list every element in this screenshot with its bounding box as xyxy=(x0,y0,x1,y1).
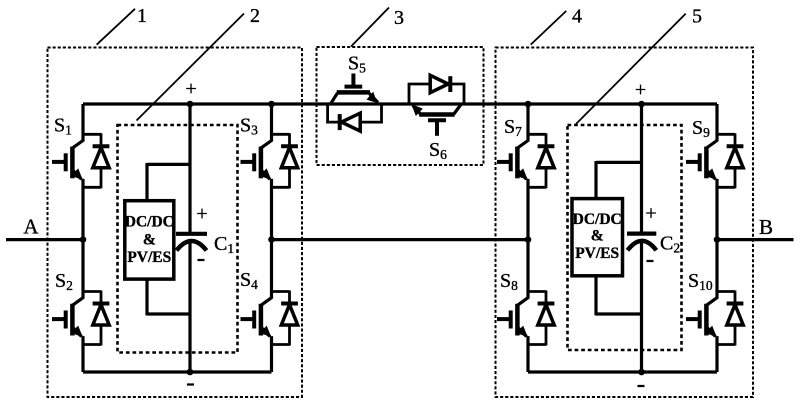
text DC/DC & PV/ES (right) xyxy=(573,211,622,262)
svg-text:1: 1 xyxy=(137,5,147,27)
svg-text:+: + xyxy=(185,78,196,100)
junction node top bus / S7 leg xyxy=(525,101,532,108)
module box 3 (bidirectional switch cell, dashed) xyxy=(317,47,484,165)
transistor S6 (horizontal IGBT, gate down, antiparallel diode above) xyxy=(408,75,466,136)
transistor S5 (horizontal IGBT, gate up, antiparallel diode below) xyxy=(326,74,383,132)
svg-text:5: 5 xyxy=(692,6,702,28)
capacitor C1 (polarized) xyxy=(176,234,207,251)
transistor S2 (IGBT with antiparallel diode) xyxy=(52,291,109,346)
svg-text:-: - xyxy=(637,370,646,399)
module box 1 (left H-bridge cell, dashed) xyxy=(48,48,303,398)
svg-text:PV/ES: PV/ES xyxy=(575,245,619,262)
wire: left block top elbow xyxy=(147,163,190,201)
wire: right leg S9/S10 vertical xyxy=(715,104,718,372)
junction node B / right leg xyxy=(714,236,721,243)
wire: left bridge bottom bus xyxy=(83,370,272,373)
transistor S4 (IGBT with antiparallel diode) xyxy=(241,291,298,346)
svg-text:DC/DC: DC/DC xyxy=(573,211,622,228)
leader line to label 1 xyxy=(97,9,135,45)
transistor S8 (IGBT with antiparallel diode) xyxy=(497,291,554,346)
wire: terminal A lead xyxy=(6,238,83,241)
svg-text:B: B xyxy=(759,215,773,239)
transistor S7 (IGBT with antiparallel diode) xyxy=(497,133,554,188)
svg-text:DC/DC: DC/DC xyxy=(125,213,174,230)
module box 5 (right DC/DC-PV/ES sub-module, dashed) xyxy=(568,125,682,350)
capacitor C2 (polarized) xyxy=(627,234,656,251)
leader line to label 2 xyxy=(137,14,245,121)
junction node bottom bus / C1 leg xyxy=(187,369,194,376)
module box 2 (left DC/DC-PV/ES sub-module, dashed) xyxy=(118,125,238,353)
wire: left bridge right leg S3/S4 vertical xyxy=(270,104,273,372)
svg-text:-: - xyxy=(646,245,655,274)
svg-text:A: A xyxy=(23,214,39,238)
transistor S9 (IGBT with antiparallel diode) xyxy=(686,133,743,188)
wire: mid link between bridges xyxy=(272,238,529,241)
transistor S3 (IGBT with antiparallel diode) xyxy=(241,133,298,188)
junction node top bus / C2 leg xyxy=(638,101,645,108)
wire: right block top elbow xyxy=(596,161,642,199)
svg-text:+: + xyxy=(196,203,207,225)
svg-text:3: 3 xyxy=(394,7,404,29)
DC/DC & PV/ES block (right) xyxy=(572,199,623,276)
wire: right block bottom elbow xyxy=(596,276,642,316)
transistor S1 (IGBT with antiparallel diode) xyxy=(52,133,109,188)
svg-text:-: - xyxy=(186,368,195,397)
svg-text:&: & xyxy=(143,232,156,249)
junction node + left bus / C1 leg xyxy=(187,101,194,108)
svg-text:-: - xyxy=(197,244,206,273)
svg-text:4: 4 xyxy=(572,6,582,28)
DC/DC & PV/ES block (left) xyxy=(125,201,174,279)
junction node mid / S3-S4 leg xyxy=(268,236,275,243)
svg-text:2: 2 xyxy=(250,5,260,27)
transistor S10 (IGBT with antiparallel diode) xyxy=(686,291,743,346)
svg-text:&: & xyxy=(591,228,604,245)
module box 4 (right H-bridge cell, dashed) xyxy=(496,48,754,398)
wire: right bridge bottom bus xyxy=(528,370,717,373)
svg-text:+: + xyxy=(645,203,656,225)
leader line to label 5 xyxy=(576,14,686,124)
leader line to label 3 xyxy=(351,8,389,47)
wire: top DC bus xyxy=(83,102,717,105)
wire: left leg S1/S2 vertical xyxy=(81,104,84,372)
wire: right capacitor leg vertical xyxy=(640,104,643,372)
wire: left capacitor leg vertical xyxy=(188,104,191,372)
text DC/DC & PV/ES (left) xyxy=(125,213,174,266)
junction node mid / S7-S8 leg xyxy=(525,236,532,243)
junction node top bus / S3 leg xyxy=(268,101,275,108)
svg-text:PV/ES: PV/ES xyxy=(127,249,171,266)
wire: right bridge left leg S7/S8 vertical xyxy=(526,104,529,372)
wire: left block bottom elbow xyxy=(147,279,190,315)
wire: terminal B lead xyxy=(717,238,794,241)
leader line to label 4 xyxy=(531,11,567,45)
junction node bottom bus / C2 leg xyxy=(638,369,645,376)
svg-text:+: + xyxy=(635,79,646,101)
junction node A / left leg xyxy=(80,236,87,243)
